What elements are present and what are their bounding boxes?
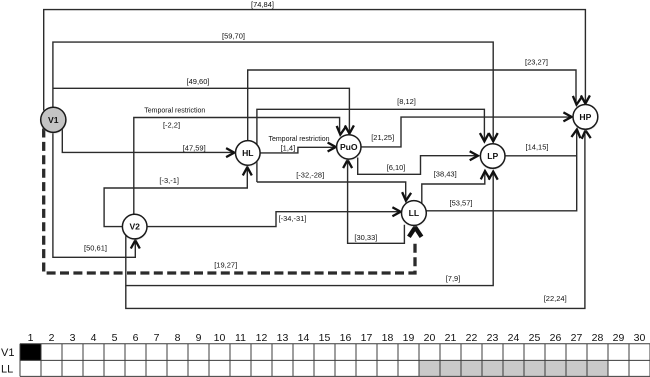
svg-text:[47,59]: [47,59] bbox=[183, 143, 206, 152]
wire edge PuO-&gt;HP [21,25] bbox=[361, 112, 572, 146]
svg-text:[74,84]: [74,84] bbox=[251, 0, 274, 9]
svg-text:[59,70]: [59,70] bbox=[222, 31, 245, 40]
grid lines bbox=[20, 344, 650, 377]
svg-text:V2: V2 bbox=[129, 222, 140, 232]
svg-text:1: 1 bbox=[28, 332, 34, 344]
node PuO bbox=[337, 135, 361, 161]
wire edge LP-&gt;HP [14,15] bbox=[505, 143, 577, 156]
svg-text:27: 27 bbox=[571, 332, 583, 344]
node LL bbox=[402, 201, 427, 227]
wire edge V2-&gt;LL [-34,-31] bbox=[147, 207, 401, 226]
svg-text:[30,33]: [30,33] bbox=[354, 233, 377, 242]
svg-text:V1: V1 bbox=[48, 115, 59, 125]
black cell V1 slot 1 bbox=[20, 344, 41, 361]
svg-text:11: 11 bbox=[235, 332, 246, 344]
node V2 bbox=[122, 214, 147, 240]
node V1 bbox=[41, 107, 66, 133]
svg-text:7: 7 bbox=[154, 332, 160, 344]
svg-text:21: 21 bbox=[445, 332, 457, 344]
wire edge V1-&gt;HP [74,84] bbox=[44, 0, 590, 111]
svg-text:4: 4 bbox=[91, 332, 97, 344]
svg-text:[-34,-31]: [-34,-31] bbox=[279, 214, 307, 223]
svg-text:Temporal restriction: Temporal restriction bbox=[268, 136, 329, 143]
svg-text:[8,12]: [8,12] bbox=[397, 97, 416, 106]
svg-text:2: 2 bbox=[49, 332, 55, 344]
node LP bbox=[480, 144, 505, 170]
timeline grid bbox=[1, 332, 650, 376]
svg-text:Temporal restriction: Temporal restriction bbox=[144, 108, 205, 115]
wire edge V2-&gt;LP [7,9] bbox=[126, 172, 498, 286]
svg-text:[50,61]: [50,61] bbox=[84, 244, 107, 253]
wire edge V1-&gt;V2 [50,61] bbox=[53, 132, 140, 257]
svg-text:3: 3 bbox=[70, 332, 76, 344]
svg-text:[38,43]: [38,43] bbox=[434, 170, 457, 179]
wire edge V1-&gt;LL [19,27] dashed bbox=[44, 129, 422, 274]
svg-text:[23,27]: [23,27] bbox=[525, 58, 548, 67]
svg-text:9: 9 bbox=[196, 332, 202, 344]
wire edge LL-&gt;LP [38,43] bbox=[422, 170, 490, 205]
svg-text:PuO: PuO bbox=[340, 142, 358, 152]
svg-text:[-3,-1]: [-3,-1] bbox=[159, 176, 179, 185]
svg-text:17: 17 bbox=[361, 332, 373, 344]
svg-text:23: 23 bbox=[487, 332, 499, 344]
node HP bbox=[573, 105, 598, 131]
svg-text:[6,10]: [6,10] bbox=[387, 163, 406, 172]
svg-text:[-2,2]: [-2,2] bbox=[163, 121, 180, 130]
svg-text:25: 25 bbox=[529, 332, 541, 344]
wire edge V2-&gt;HP [22,24] bbox=[126, 130, 591, 308]
svg-text:[1,4]: [1,4] bbox=[281, 143, 296, 152]
svg-text:13: 13 bbox=[277, 332, 289, 344]
svg-text:[19,27]: [19,27] bbox=[214, 261, 237, 270]
grey cells LL slots 20-28 bbox=[419, 360, 608, 376]
wire edge V2-&gt;PuO [-2,2] temporal restriction bbox=[134, 108, 346, 215]
svg-text:12: 12 bbox=[256, 332, 268, 344]
svg-text:6: 6 bbox=[133, 332, 139, 344]
svg-text:22: 22 bbox=[466, 332, 478, 344]
svg-text:16: 16 bbox=[340, 332, 352, 344]
wire edge V1-&gt;PuO [49,60] bbox=[53, 77, 354, 133]
svg-text:19: 19 bbox=[403, 332, 415, 344]
svg-text:20: 20 bbox=[424, 332, 436, 344]
svg-text:HL: HL bbox=[242, 148, 253, 158]
wire edge HL-&gt;LL [-32,-28] bbox=[257, 171, 411, 201]
svg-text:[7,9]: [7,9] bbox=[446, 274, 461, 283]
wire edge HL-&gt;PuO [1,4] temporal restriction bbox=[260, 136, 336, 153]
wire edge V1-&gt;LP [59,70] bbox=[53, 31, 498, 141]
svg-text:18: 18 bbox=[382, 332, 394, 344]
svg-text:24: 24 bbox=[508, 332, 520, 344]
wire edge V2-&gt;HL [-3,-1] bbox=[104, 167, 252, 226]
wire edge LL-&gt;PuO [30,33] bbox=[343, 160, 404, 243]
svg-text:LL: LL bbox=[1, 364, 13, 376]
svg-text:14: 14 bbox=[298, 332, 310, 344]
wire edge LL-&gt;HP [53,57] bbox=[426, 129, 581, 211]
column numbers 1-30 bbox=[28, 332, 646, 344]
svg-text:LP: LP bbox=[487, 151, 498, 161]
svg-text:5: 5 bbox=[112, 332, 118, 344]
svg-text:V1: V1 bbox=[1, 347, 14, 359]
svg-text:29: 29 bbox=[613, 332, 625, 344]
svg-text:HP: HP bbox=[579, 112, 591, 122]
wire edge HL-&gt;HP [23,27] bbox=[248, 58, 582, 141]
svg-text:[14,15]: [14,15] bbox=[526, 143, 549, 152]
svg-text:LL: LL bbox=[409, 208, 420, 218]
wire edge HL-&gt;LP [8,12] bbox=[257, 97, 489, 182]
svg-text:[22,24]: [22,24] bbox=[544, 294, 567, 303]
svg-text:[-32,-28]: [-32,-28] bbox=[296, 171, 324, 180]
svg-text:15: 15 bbox=[319, 332, 331, 344]
svg-text:30: 30 bbox=[634, 332, 646, 344]
svg-text:28: 28 bbox=[592, 332, 604, 344]
svg-text:8: 8 bbox=[175, 332, 181, 344]
wire edge V1-&gt;HL [47,59] bbox=[62, 128, 234, 157]
wire edge PuO-&gt;LP [6,10] bbox=[358, 151, 478, 174]
svg-text:[49,60]: [49,60] bbox=[187, 77, 210, 86]
svg-text:[53,57]: [53,57] bbox=[450, 199, 473, 208]
svg-text:10: 10 bbox=[214, 332, 226, 344]
node HL bbox=[236, 141, 261, 167]
svg-text:[21,25]: [21,25] bbox=[371, 133, 394, 142]
svg-text:26: 26 bbox=[550, 332, 562, 344]
